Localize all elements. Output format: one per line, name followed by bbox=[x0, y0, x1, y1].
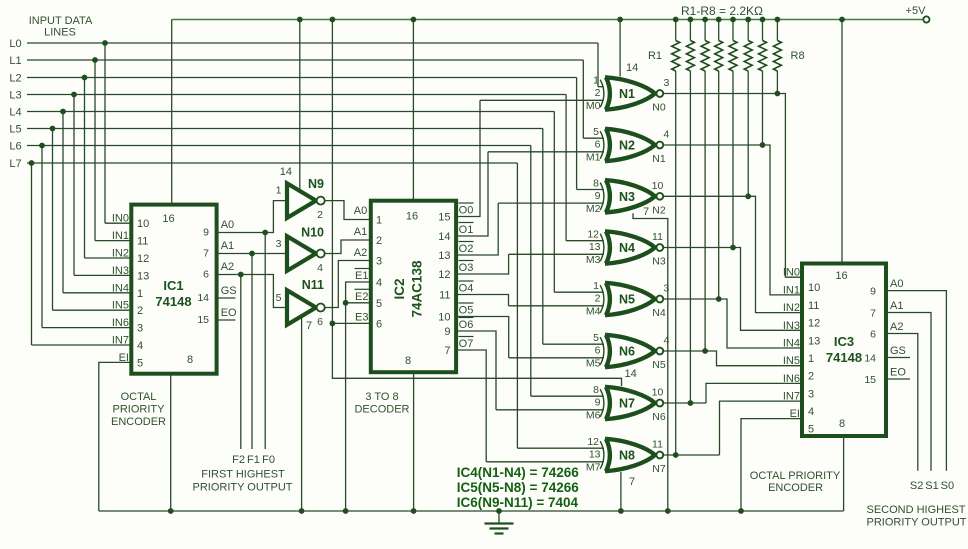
label R1-R8 value bbox=[681, 4, 763, 18]
svg-text:5: 5 bbox=[276, 292, 282, 304]
svg-text:10: 10 bbox=[652, 387, 664, 399]
svg-text:7: 7 bbox=[870, 308, 876, 320]
wire R3 pull-up to node N6 bbox=[702, 71, 708, 354]
svg-text:16: 16 bbox=[406, 211, 418, 223]
svg-text:4: 4 bbox=[317, 262, 323, 274]
svg-text:S1: S1 bbox=[925, 480, 938, 492]
wire ground rail bbox=[99, 510, 844, 512]
wire node N1 gate output to IC3 IN1 bbox=[663, 145, 802, 295]
svg-text:10: 10 bbox=[652, 180, 664, 192]
wire L2 input line with junction bbox=[9, 73, 576, 259]
wire R5 pull-up to node N4 bbox=[730, 71, 736, 250]
label OCTAL PRIORITY ENCODER (IC3) bbox=[750, 470, 841, 494]
svg-text:EO: EO bbox=[221, 307, 237, 319]
node F2 F1 F0 first priority outputs bbox=[232, 454, 275, 466]
svg-text:6: 6 bbox=[317, 316, 323, 328]
svg-text:SECOND HIGHEST: SECOND HIGHEST bbox=[866, 504, 965, 516]
svg-text:F0: F0 bbox=[262, 454, 275, 466]
svg-text:IC5(N5-N8) = 74266: IC5(N5-N8) = 74266 bbox=[457, 480, 579, 495]
svg-text:N9: N9 bbox=[308, 177, 324, 191]
svg-text:7: 7 bbox=[643, 206, 649, 218]
wire R2 pull-up to node N7 bbox=[688, 71, 694, 406]
wire node N3 gate output to IC3 IN3 bbox=[663, 248, 802, 331]
IC1 pin numbers bbox=[137, 213, 209, 369]
svg-text:N2: N2 bbox=[652, 204, 666, 216]
wire N4 input stubs bbox=[509, 241, 604, 255]
wire E3 to +5V vertical bbox=[332, 322, 370, 324]
svg-text:EO: EO bbox=[890, 367, 906, 379]
wire N6 input stubs bbox=[509, 344, 604, 358]
svg-text:10: 10 bbox=[137, 218, 149, 230]
N4 pin labels 12,13,11 and M3/N3 nets bbox=[586, 229, 666, 268]
wire IC2 pin8 GND bbox=[411, 372, 417, 514]
wire net O6 to M6 bbox=[456, 318, 496, 410]
svg-text:N4: N4 bbox=[652, 307, 666, 319]
svg-text:3: 3 bbox=[664, 77, 670, 89]
wire net O3 to M3 bbox=[456, 254, 509, 274]
svg-text:DECODER: DECODER bbox=[354, 404, 409, 416]
svg-text:10: 10 bbox=[808, 282, 820, 294]
svg-text:13: 13 bbox=[808, 335, 820, 347]
wire net O0 to M0 bbox=[456, 100, 480, 216]
wire IC1 pin8 GND bbox=[168, 374, 174, 514]
wire IC1 pin16 to +5V rail bbox=[171, 20, 173, 205]
svg-text:N3: N3 bbox=[619, 190, 635, 204]
svg-text:14: 14 bbox=[864, 353, 876, 365]
svg-text:9: 9 bbox=[203, 227, 209, 239]
svg-text:+5V: +5V bbox=[906, 5, 927, 17]
resistor R2 bbox=[686, 17, 694, 71]
svg-text:11: 11 bbox=[137, 236, 148, 248]
svg-text:IN2: IN2 bbox=[783, 302, 800, 314]
wire +5V rail bbox=[172, 19, 924, 21]
wire net O1 to M1 bbox=[456, 152, 488, 236]
svg-text:L0: L0 bbox=[9, 38, 21, 50]
svg-text:M7: M7 bbox=[586, 462, 601, 474]
node S2 S1 S0 second priority outputs bbox=[910, 480, 954, 492]
svg-text:N10: N10 bbox=[301, 226, 324, 240]
svg-text:E3: E3 bbox=[355, 311, 368, 323]
svg-text:1: 1 bbox=[808, 353, 814, 365]
svg-text:2: 2 bbox=[595, 87, 601, 99]
wire IC3 pin16 to +5V rail bbox=[839, 17, 845, 264]
inverter N10 (7404) bbox=[287, 226, 325, 275]
wire N3 pin7 GND (IC4) bbox=[633, 206, 671, 514]
svg-text:LINES: LINES bbox=[44, 27, 76, 39]
svg-text:2: 2 bbox=[808, 371, 814, 383]
wire IC2 pin16 to +5V rail bbox=[411, 17, 417, 201]
wire N9 output to IC2 pin1 (A0) bbox=[325, 201, 371, 220]
svg-text:6: 6 bbox=[595, 345, 601, 357]
IC3 input labels bbox=[783, 267, 800, 420]
svg-text:A0: A0 bbox=[890, 278, 903, 290]
wire N8 pin7 GND (IC5) bbox=[618, 472, 635, 514]
svg-text:PRIORITY OUTPUT: PRIORITY OUTPUT bbox=[866, 517, 966, 529]
svg-text:5: 5 bbox=[593, 332, 599, 344]
svg-text:3: 3 bbox=[276, 238, 282, 250]
label FIRST HIGHEST PRIORITY OUTPUT bbox=[192, 469, 292, 494]
wire R8 pull-up to node N1 bbox=[775, 71, 781, 96]
svg-text:A0: A0 bbox=[354, 205, 367, 217]
ground symbol bbox=[485, 508, 514, 533]
svg-text:5: 5 bbox=[808, 424, 814, 436]
wire node N5 gate output to IC3 IN5 bbox=[663, 351, 802, 366]
svg-text:IN0: IN0 bbox=[783, 267, 800, 279]
XNOR gate N8 (74266) bbox=[600, 439, 663, 471]
wire IC3 EI to ground rail bbox=[738, 419, 802, 514]
svg-text:O2: O2 bbox=[459, 243, 474, 255]
svg-text:PRIORITY OUTPUT: PRIORITY OUTPUT bbox=[192, 482, 292, 494]
wire node N0 gate output to IC3 IN0 bbox=[663, 94, 802, 278]
svg-text:M2: M2 bbox=[586, 203, 601, 215]
wire R7 pull-up to node N2 bbox=[760, 71, 766, 148]
svg-text:N0: N0 bbox=[652, 102, 666, 114]
wire net A0/S0 bbox=[886, 278, 946, 471]
wire net A0 from IC1 pin9 to N9 with F0 tap bbox=[217, 201, 368, 449]
resistor R3 bbox=[701, 17, 709, 71]
label IC4/IC5/IC6 device notes bbox=[457, 465, 579, 510]
svg-text:O7: O7 bbox=[459, 338, 474, 350]
svg-text:R8: R8 bbox=[791, 50, 805, 62]
N1 pin labels 1,2,3 and M0/N0 nets bbox=[586, 75, 670, 114]
wire N8 input stubs bbox=[486, 448, 604, 462]
svg-text:N1: N1 bbox=[619, 87, 635, 101]
wire N7 input stubs bbox=[496, 396, 604, 410]
wire N10 output to IC2 pin2 (A1) bbox=[325, 240, 371, 254]
XNOR gate N4 (74266) bbox=[600, 231, 663, 263]
wire IC3 EO stub bbox=[886, 367, 910, 380]
XNOR gate N3 (74266) bbox=[600, 180, 663, 212]
svg-text:3: 3 bbox=[808, 388, 814, 400]
svg-text:8: 8 bbox=[593, 384, 599, 396]
svg-text:74148: 74148 bbox=[826, 350, 862, 365]
IC1 input labels IN0-IN7, EI bbox=[112, 213, 129, 364]
wire IC1 EO stub bbox=[217, 307, 237, 320]
resistor R4 bbox=[715, 17, 723, 71]
svg-text:3 TO 8: 3 TO 8 bbox=[365, 391, 398, 403]
svg-text:6: 6 bbox=[595, 139, 601, 151]
wire net O4 to M4 bbox=[456, 281, 508, 306]
wire net A2/S2 bbox=[886, 321, 918, 471]
resistor R5 bbox=[729, 17, 737, 71]
svg-text:5: 5 bbox=[376, 298, 382, 310]
wire R4 pull-up to node N5 bbox=[716, 71, 722, 302]
resistor R1 bbox=[648, 17, 680, 71]
svg-text:PRIORITY: PRIORITY bbox=[113, 404, 166, 416]
svg-text:12: 12 bbox=[587, 436, 599, 448]
svg-text:IC6(N9-N11) = 7404: IC6(N9-N11) = 7404 bbox=[457, 495, 579, 510]
svg-text:N5: N5 bbox=[652, 359, 666, 371]
wire N1 pin14 VCC bbox=[617, 17, 638, 77]
svg-text:L2: L2 bbox=[9, 73, 21, 85]
svg-text:A2: A2 bbox=[354, 247, 367, 259]
svg-text:6: 6 bbox=[870, 329, 876, 341]
svg-text:L7: L7 bbox=[9, 158, 21, 170]
svg-text:8: 8 bbox=[405, 355, 411, 367]
svg-text:7: 7 bbox=[203, 248, 209, 260]
svg-text:8: 8 bbox=[593, 177, 599, 189]
wire node N7 gate output to IC3 IN7 bbox=[663, 401, 802, 455]
label A1 pin label bbox=[276, 238, 282, 250]
wire node N2 gate output to IC3 IN2 bbox=[663, 196, 802, 312]
wire net A1 from IC1 pin7 to N10 with F1 tap bbox=[217, 226, 368, 449]
N5 pin labels 1,2,3 and M4/N4 nets bbox=[586, 280, 670, 319]
wire N3 input stubs bbox=[498, 190, 604, 204]
svg-text:14: 14 bbox=[438, 231, 450, 243]
op-amp substitute: IC1 74148 octal priority encoder box bbox=[131, 205, 216, 374]
svg-text:IN7: IN7 bbox=[783, 391, 800, 403]
svg-text:11: 11 bbox=[808, 300, 819, 312]
svg-text:11: 11 bbox=[652, 439, 663, 451]
svg-text:M6: M6 bbox=[586, 410, 601, 422]
svg-text:74148: 74148 bbox=[155, 294, 191, 309]
svg-text:12: 12 bbox=[137, 253, 149, 265]
svg-text:O6: O6 bbox=[459, 319, 474, 331]
svg-text:M0: M0 bbox=[586, 100, 601, 112]
svg-text:4: 4 bbox=[664, 129, 670, 141]
svg-text:A1: A1 bbox=[354, 226, 367, 238]
svg-text:15: 15 bbox=[864, 374, 876, 386]
svg-text:E1: E1 bbox=[355, 270, 368, 282]
svg-text:2: 2 bbox=[317, 209, 323, 221]
svg-text:E2: E2 bbox=[355, 291, 368, 303]
svg-text:INPUT DATA: INPUT DATA bbox=[29, 15, 93, 27]
wire +5V to E3 and N7 pin14 VCC bbox=[330, 17, 637, 386]
label OCTAL PRIORITY ENCODER (IC1) bbox=[111, 391, 166, 428]
svg-text:R1-R8 = 2.2KΩ: R1-R8 = 2.2KΩ bbox=[681, 4, 763, 18]
wire E1,E2 to ground bbox=[343, 282, 371, 514]
svg-text:4: 4 bbox=[376, 277, 382, 289]
svg-text:13: 13 bbox=[589, 241, 601, 253]
svg-text:9: 9 bbox=[595, 397, 601, 409]
N2 pin labels 5,6,4 and M1/N1 nets bbox=[586, 126, 670, 165]
svg-text:5: 5 bbox=[593, 126, 599, 138]
N6 pin labels 5,6,4 and M5/N5 nets bbox=[586, 332, 670, 371]
svg-text:M4: M4 bbox=[586, 306, 601, 318]
svg-text:GS: GS bbox=[221, 285, 237, 297]
svg-text:14: 14 bbox=[626, 62, 638, 74]
svg-text:1: 1 bbox=[593, 75, 599, 87]
svg-text:1: 1 bbox=[276, 185, 282, 197]
wire R6 pull-up to node N3 bbox=[745, 71, 751, 199]
wire N1 input stubs bbox=[480, 87, 604, 101]
wire L7 input line with junction bbox=[9, 158, 517, 448]
svg-text:OCTAL: OCTAL bbox=[121, 391, 157, 403]
svg-text:1: 1 bbox=[376, 215, 382, 227]
wire IC3 pin8 GND bbox=[843, 436, 845, 511]
label INPUT DATA LINES bbox=[29, 15, 93, 39]
svg-text:N5: N5 bbox=[619, 293, 635, 307]
svg-text:N7: N7 bbox=[619, 397, 635, 411]
wire L1 input line with junction bbox=[9, 55, 583, 241]
IC3 74148 octal priority encoder box bbox=[802, 264, 886, 437]
N3 pin labels 8,9,10 and M2/N2 nets bbox=[586, 177, 666, 216]
wire IC1 EI to ground rail bbox=[99, 362, 132, 511]
svg-text:6: 6 bbox=[203, 269, 209, 281]
svg-text:L1: L1 bbox=[9, 55, 21, 67]
wire L4 input line with junction bbox=[9, 107, 554, 293]
svg-text:9: 9 bbox=[595, 190, 601, 202]
resistor R6 bbox=[744, 17, 752, 71]
svg-text:R1: R1 bbox=[648, 50, 662, 62]
svg-text:S0: S0 bbox=[941, 480, 954, 492]
svg-text:8: 8 bbox=[187, 354, 193, 366]
XNOR gate N2 (74266) bbox=[600, 129, 663, 161]
svg-text:7: 7 bbox=[629, 476, 635, 488]
svg-text:N4: N4 bbox=[619, 241, 635, 255]
svg-text:5: 5 bbox=[137, 357, 143, 369]
svg-text:12: 12 bbox=[808, 318, 820, 330]
label A0 pin labels bbox=[276, 185, 282, 197]
N8 pin labels 12,13,11 and M7/N7 nets bbox=[586, 436, 666, 475]
svg-text:IN6: IN6 bbox=[783, 373, 800, 385]
wire N9 pin14 VCC bbox=[280, 17, 303, 192]
node +5V terminal bbox=[906, 5, 930, 23]
wire node N4 gate output to IC3 IN4 bbox=[663, 299, 802, 348]
svg-text:O5: O5 bbox=[459, 305, 474, 317]
IC3 pin numbers bbox=[808, 270, 876, 436]
svg-text:A0: A0 bbox=[221, 219, 234, 231]
svg-text:L5: L5 bbox=[9, 124, 21, 136]
wire L3 input line with junction bbox=[9, 90, 566, 276]
svg-text:A1: A1 bbox=[890, 300, 903, 312]
svg-text:IC3: IC3 bbox=[834, 334, 854, 349]
svg-text:N3: N3 bbox=[652, 256, 666, 268]
inverter N9 (7404) bbox=[287, 177, 325, 221]
wire net O7 to M7 bbox=[456, 337, 486, 462]
svg-text:7: 7 bbox=[444, 345, 450, 357]
svg-text:10: 10 bbox=[438, 312, 450, 324]
svg-text:M5: M5 bbox=[586, 358, 601, 370]
svg-text:N6: N6 bbox=[619, 345, 635, 359]
wire N5 input stubs bbox=[509, 292, 604, 306]
svg-text:N7: N7 bbox=[652, 463, 666, 475]
XNOR gate N7 (74266) bbox=[600, 387, 663, 419]
svg-text:16: 16 bbox=[835, 270, 847, 282]
wire L6 input line with junction bbox=[9, 141, 530, 397]
XNOR gate N5 (74266) bbox=[600, 283, 663, 315]
svg-text:N1: N1 bbox=[652, 153, 666, 165]
svg-text:L3: L3 bbox=[9, 90, 21, 102]
svg-text:4: 4 bbox=[137, 340, 143, 352]
svg-text:16: 16 bbox=[162, 213, 174, 225]
IC2 74AC138 decoder box bbox=[371, 201, 456, 373]
svg-text:A1: A1 bbox=[221, 240, 234, 252]
svg-text:IN1: IN1 bbox=[783, 284, 800, 296]
IC2 pin numbers bbox=[376, 211, 451, 368]
wire R1 pull-up to node N8 bbox=[673, 71, 679, 458]
svg-text:GS: GS bbox=[890, 345, 906, 357]
wire node N6 gate output to IC3 IN6 bbox=[663, 383, 802, 403]
svg-text:IC2: IC2 bbox=[392, 278, 407, 299]
wire IC3 GS stub bbox=[886, 345, 910, 358]
svg-text:N11: N11 bbox=[302, 278, 324, 292]
svg-text:12: 12 bbox=[587, 229, 599, 241]
N7 pin labels 8,9,10 and M6/N6 nets bbox=[586, 384, 666, 423]
svg-text:14: 14 bbox=[197, 292, 209, 304]
svg-text:IC4(N1-N4) = 74266: IC4(N1-N4) = 74266 bbox=[457, 465, 579, 480]
svg-text:O4: O4 bbox=[459, 283, 474, 295]
wire net O5 to M5 bbox=[456, 303, 509, 358]
svg-text:15: 15 bbox=[438, 212, 450, 224]
svg-text:8: 8 bbox=[839, 418, 845, 430]
svg-text:N8: N8 bbox=[619, 449, 635, 463]
svg-text:12: 12 bbox=[438, 269, 450, 281]
resistor R8 bbox=[773, 17, 804, 71]
wire L0 input line with junction bbox=[9, 38, 598, 223]
wire net O2 to M2 bbox=[456, 203, 498, 255]
svg-text:4: 4 bbox=[664, 335, 670, 347]
svg-text:ENCODER: ENCODER bbox=[111, 416, 166, 428]
XNOR gate N1 (74266) bbox=[600, 77, 663, 109]
svg-text:14: 14 bbox=[625, 368, 637, 380]
svg-text:2: 2 bbox=[137, 305, 143, 317]
svg-text:O0: O0 bbox=[459, 205, 474, 217]
svg-text:9: 9 bbox=[870, 286, 876, 298]
svg-text:IN4: IN4 bbox=[783, 338, 800, 350]
resistor R7 bbox=[759, 17, 767, 71]
svg-text:15: 15 bbox=[197, 314, 209, 326]
svg-text:13: 13 bbox=[589, 449, 601, 461]
wire N11 pin7 GND (IC6) bbox=[299, 316, 312, 514]
svg-text:IN5: IN5 bbox=[783, 355, 800, 367]
wire IC1 GS stub bbox=[217, 285, 237, 298]
svg-text:L4: L4 bbox=[9, 107, 21, 119]
svg-text:IN3: IN3 bbox=[783, 320, 800, 332]
IC2 left labels E1 E2 E3 (A labels drawn with nets) bbox=[355, 269, 370, 324]
svg-text:L6: L6 bbox=[9, 141, 21, 153]
wire net A1/S1 bbox=[886, 300, 931, 471]
svg-text:M1: M1 bbox=[586, 152, 601, 164]
svg-text:ENCODER: ENCODER bbox=[768, 482, 823, 494]
svg-text:11: 11 bbox=[439, 290, 450, 302]
svg-text:F1: F1 bbox=[247, 454, 260, 466]
wire IC1 input stubs bbox=[32, 223, 132, 345]
wire N11 output to IC2 pin3 (A2) bbox=[325, 261, 371, 308]
wire N2 input stubs bbox=[488, 138, 604, 152]
svg-text:3: 3 bbox=[664, 283, 670, 295]
svg-text:6: 6 bbox=[376, 318, 382, 330]
svg-text:N2: N2 bbox=[619, 139, 635, 153]
label A2 pin label bbox=[276, 292, 282, 304]
wire L5 input line with junction bbox=[9, 124, 542, 345]
svg-text:4: 4 bbox=[808, 406, 814, 418]
label 3 TO 8 DECODER bbox=[354, 391, 409, 416]
svg-text:A2: A2 bbox=[890, 321, 903, 333]
svg-text:9: 9 bbox=[444, 326, 450, 338]
svg-text:O3: O3 bbox=[459, 262, 474, 274]
XNOR gate N6 (74266) bbox=[600, 335, 663, 367]
svg-text:1: 1 bbox=[137, 288, 143, 300]
svg-text:O1: O1 bbox=[459, 224, 474, 236]
svg-text:3: 3 bbox=[376, 256, 382, 268]
svg-text:IC1: IC1 bbox=[163, 278, 183, 293]
svg-text:14: 14 bbox=[280, 166, 292, 178]
svg-text:11: 11 bbox=[652, 231, 663, 243]
svg-text:74AC138: 74AC138 bbox=[410, 260, 425, 318]
svg-text:13: 13 bbox=[438, 250, 450, 262]
svg-text:M3: M3 bbox=[586, 254, 601, 266]
label SECOND HIGHEST PRIORITY OUTPUT bbox=[866, 504, 966, 529]
svg-text:2: 2 bbox=[595, 293, 601, 305]
svg-text:OCTAL PRIORITY: OCTAL PRIORITY bbox=[750, 470, 841, 482]
svg-text:S2: S2 bbox=[910, 480, 923, 492]
inverter N11 (7404) bbox=[287, 278, 325, 328]
svg-text:F2: F2 bbox=[232, 454, 245, 466]
svg-text:N6: N6 bbox=[652, 411, 666, 423]
svg-text:FIRST HIGHEST: FIRST HIGHEST bbox=[201, 469, 285, 481]
svg-text:1: 1 bbox=[593, 280, 599, 292]
